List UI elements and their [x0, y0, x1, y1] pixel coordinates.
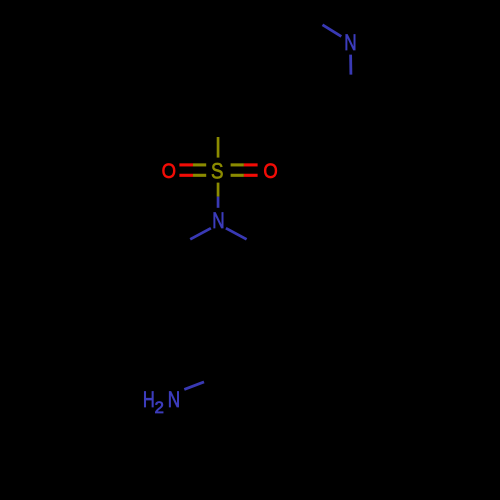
wire: piperidine N-C2 half-bond (blue, lower left): [190, 228, 211, 239]
wire: S=O right double bond, upper line (red half near O): [244, 163, 258, 166]
svg-text:O: O: [263, 160, 277, 183]
wire: S=O right double bond, lower line (olive half near S): [231, 174, 244, 177]
wire: pyridine C2-N1 half-bond (blue, upper left of N1): [323, 25, 342, 37]
wire: amine N-CH2 half-bond (blue, up right of H2N): [184, 382, 204, 390]
wire: S=O left double bond, upper line (red half near O): [179, 163, 193, 166]
wire: S=O right double bond, lower line (red half near O): [244, 174, 258, 177]
svg-text:S: S: [211, 160, 223, 184]
svg-text:H: H: [143, 388, 155, 413]
wire: aryl C - S half-bond (olive, above S): [217, 137, 220, 158]
wire: S=O left double bond, lower line (red half near O): [179, 174, 193, 177]
svg-text:2: 2: [154, 398, 163, 417]
wire: S-N bond blue half (above piperidine N): [217, 197, 220, 208]
svg-text:N: N: [168, 388, 180, 413]
svg-text:N: N: [212, 209, 224, 234]
svg-text:O: O: [162, 160, 176, 183]
wire: piperidine N-C6 half-bond (blue, lower right): [226, 228, 247, 239]
wire: S=O left double bond, upper line (olive half near S): [193, 163, 206, 166]
wire: pyridine N1-C6 half-bond (blue, below N1): [349, 55, 352, 75]
wire: S=O right double bond, upper line (olive half near S): [231, 163, 244, 166]
wire: S-N bond olive half (below S): [217, 183, 220, 197]
wire: S=O left double bond, lower line (olive half near S): [193, 174, 206, 177]
svg-text:N: N: [344, 31, 356, 56]
